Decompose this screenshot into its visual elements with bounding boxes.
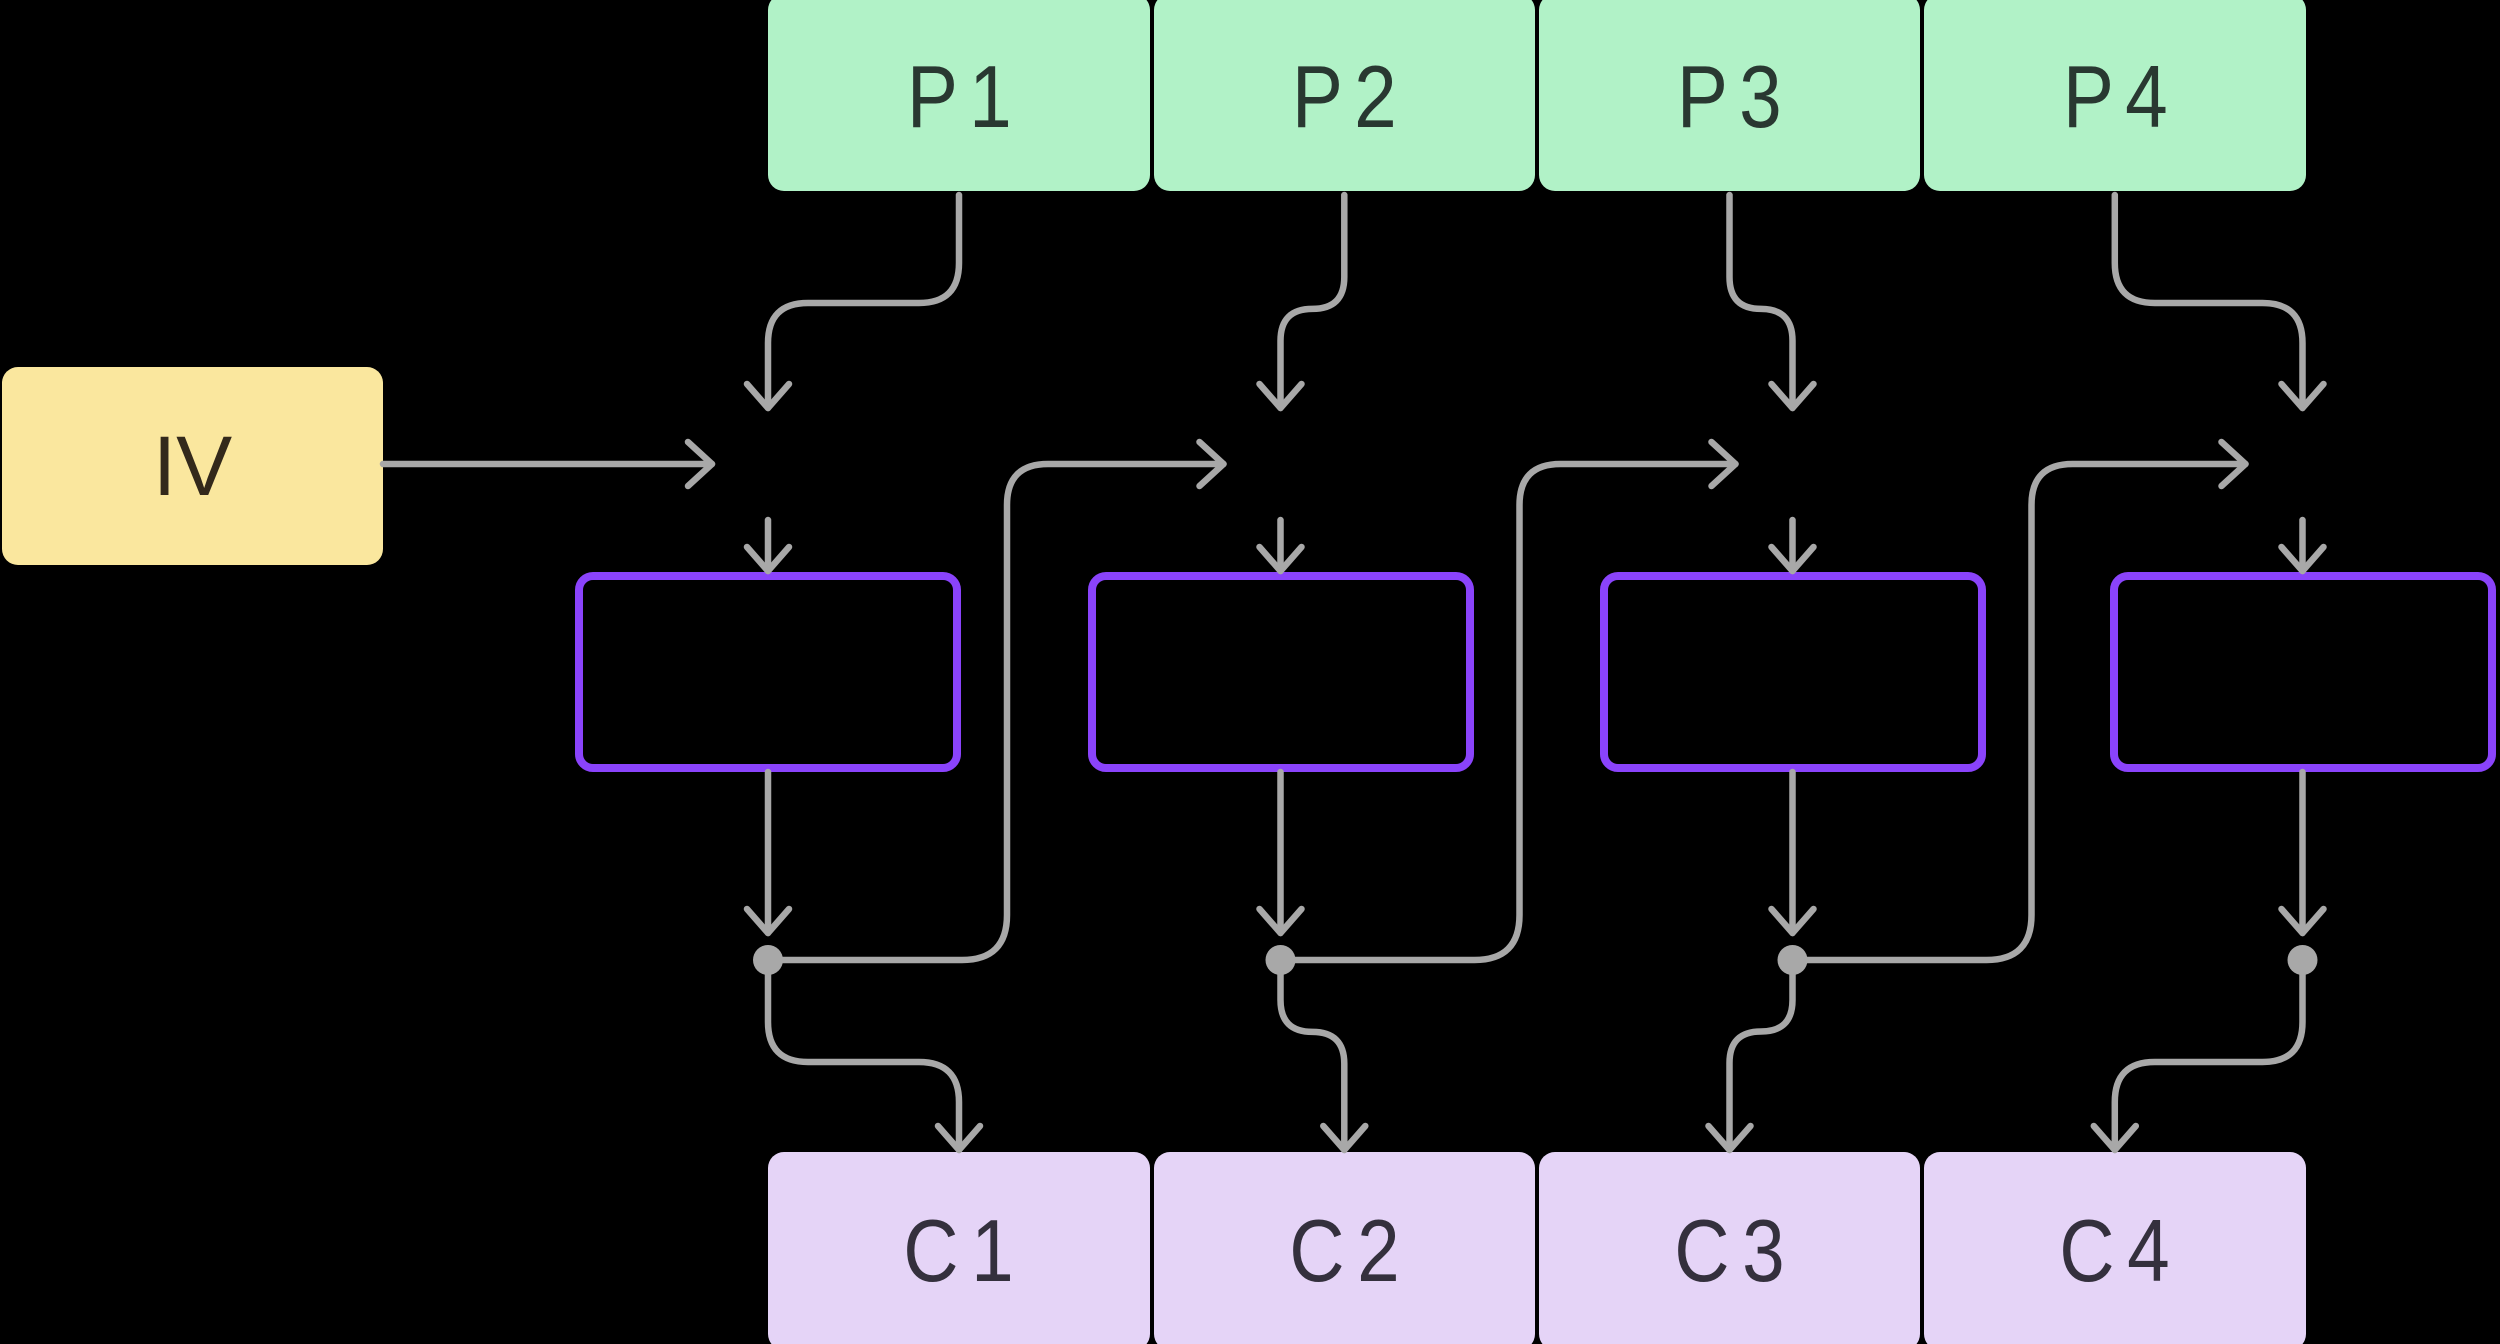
plaintext block P1 [768, 0, 1150, 191]
wire P1 to xor1 [768, 195, 959, 408]
wire node3 chain to xor4 [1793, 464, 2246, 960]
ciphertext block C1 [768, 1152, 1150, 1344]
wire IV to xor1 [383, 461, 712, 468]
ciphertext block C4 [1924, 1152, 2306, 1344]
IV block [2, 367, 383, 565]
wire node2 to C2 [1281, 975, 1345, 1150]
wire E2 to node2 [1277, 772, 1284, 933]
wire E1 to node1 [765, 772, 772, 933]
wire P3 to xor3 [1730, 195, 1793, 408]
wire node1 chain to xor2 [768, 464, 1224, 960]
wire node4 to C4 [2115, 975, 2303, 1150]
wire P4 to xor4 [2115, 195, 2303, 408]
cipher block E3 [1600, 572, 1986, 772]
wire xor4 to E4 [2299, 520, 2306, 571]
cipher block E1 [575, 572, 961, 772]
wire E4 to node4 [2299, 772, 2306, 933]
junction node 3 [1778, 945, 1808, 975]
wire P2 to xor2 [1281, 195, 1345, 408]
wire node2 chain to xor3 [1281, 464, 1736, 960]
junction node 4 [2288, 945, 2318, 975]
ciphertext block C3 [1539, 1152, 1921, 1344]
cipher block E2 [1088, 572, 1474, 772]
junction node 2 [1266, 945, 1296, 975]
cipher block E4 [2110, 572, 2496, 772]
plaintext block P4 [1924, 0, 2306, 191]
wire xor3 to E3 [1789, 520, 1796, 571]
wire xor2 to E2 [1277, 520, 1284, 571]
wire E3 to node3 [1789, 772, 1796, 933]
wire node3 to C3 [1730, 975, 1793, 1150]
plaintext block P3 [1539, 0, 1921, 191]
wire node1 to C1 [768, 975, 959, 1150]
plaintext block P2 [1154, 0, 1536, 191]
wire xor1 to E1 [765, 520, 772, 571]
ciphertext block C2 [1154, 1152, 1536, 1344]
junction node 1 [753, 945, 783, 975]
